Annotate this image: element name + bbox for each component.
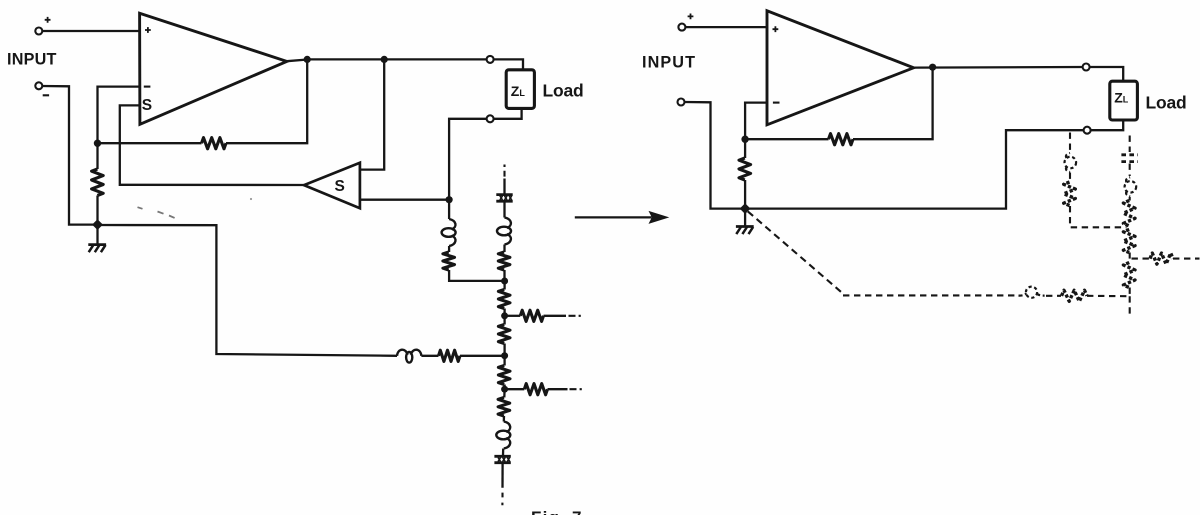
dashed inductor L7 (bottom horizontal) bbox=[1026, 287, 1037, 298]
capacitor C2 (bottom of ladder) bbox=[494, 455, 510, 458]
wire + input to op-amp U2 bbox=[685, 26, 767, 28]
resistor R10 (tap lower) bbox=[524, 384, 547, 395]
wire ladder seg 7 bbox=[503, 389, 506, 397]
wire load ZL bottom to terminal (right) bbox=[1091, 120, 1124, 130]
wire R4 to ladder node bbox=[503, 270, 505, 281]
wire ladder seg 2 bbox=[503, 309, 505, 316]
svg-text:Load: Load bbox=[543, 81, 584, 101]
wire U2 output to load terminal (right) bbox=[914, 66, 1083, 69]
wire node B to inductor L1 bbox=[448, 200, 450, 219]
junction output/feedback (right) bbox=[929, 64, 936, 71]
buffer S1 (left) bbox=[304, 163, 360, 209]
wire R7 to ladder node C bbox=[460, 355, 505, 357]
dashed wire tap branch bbox=[1132, 258, 1150, 260]
wire output branch to buffer S1 input bbox=[360, 59, 384, 169]
dashed wire L6 to R15 bbox=[1129, 197, 1131, 201]
load top terminal (right) bbox=[1083, 64, 1090, 71]
wire R13 to ground node (right) bbox=[744, 180, 746, 209]
resistor R9 (ladder) bbox=[498, 366, 510, 385]
dashed wire bottom horizontal bbox=[843, 294, 1017, 296]
wire U2 inverting input to node D bbox=[745, 103, 767, 140]
wire R11 to L4 bbox=[503, 416, 506, 422]
ground node junction (left) bbox=[92, 219, 103, 230]
wire ladder seg 3 bbox=[503, 316, 505, 325]
dashed wire ladder junction bbox=[1129, 253, 1131, 259]
resistor R1 (feedback, left) bbox=[202, 138, 227, 149]
wire node D to resistor R13 bbox=[744, 139, 746, 158]
dashed resistor R14 (branch 1) bbox=[1064, 182, 1076, 206]
dashed wire ladder seg bbox=[1129, 288, 1131, 297]
ladder junction 3 (node C) bbox=[501, 352, 508, 359]
input terminal - (left) bbox=[35, 82, 42, 89]
dashed wire tap out to edge bbox=[1173, 258, 1200, 260]
dashed resistor R15 (ladder) bbox=[1123, 201, 1135, 227]
wire R8 out bbox=[544, 315, 567, 317]
wire U1 inverting input to node A bbox=[98, 87, 140, 144]
resistor R5 (ladder) bbox=[498, 290, 510, 309]
svg-text:INPUT: INPUT bbox=[642, 54, 696, 72]
wire ladder seg 4 bbox=[503, 344, 505, 356]
dashed wire branch 1 from load return bbox=[1069, 133, 1071, 153]
wire load return to ground node (right) bbox=[745, 130, 1084, 208]
junction output/feedback (left) bbox=[304, 56, 311, 63]
load bottom terminal (left) bbox=[487, 115, 494, 122]
wire to tap resistor R8 bbox=[505, 315, 521, 317]
input terminal + (left) bbox=[35, 28, 42, 35]
dashed wire R14 to ladder junction bbox=[1070, 206, 1127, 227]
input terminal + (right) bbox=[678, 24, 685, 31]
dashed resistor R19 (tap) bbox=[1150, 253, 1173, 264]
resistor R4 (vertical) bbox=[498, 252, 510, 270]
load top terminal (left) bbox=[487, 56, 494, 63]
resistor R13 (to ground, right) bbox=[739, 158, 751, 180]
dash-dot continuation below ladder bbox=[501, 493, 503, 506]
inductor L1 (vertical, left) bbox=[449, 219, 455, 230]
node B junction bbox=[446, 196, 453, 203]
load impedance ZL (left) bbox=[506, 70, 534, 109]
node A junction bbox=[94, 140, 101, 147]
dashed wire to R16 bbox=[1046, 295, 1061, 297]
wire ladder seg 5 bbox=[503, 356, 505, 366]
wire buffer S1 lower pin to node B bbox=[360, 199, 449, 201]
dashed inductor L6 (ladder) bbox=[1125, 181, 1137, 193]
plus label inside U2 bbox=[773, 26, 779, 32]
resistor R7 (horizontal, left) bbox=[439, 350, 461, 361]
svg-text:Load: Load bbox=[1146, 93, 1187, 113]
stray scan speck bbox=[138, 207, 175, 218]
dashed resistor R18 (ladder) bbox=[1123, 263, 1135, 288]
wire node A to feedback resistor R1 bbox=[98, 142, 202, 144]
svg-text:Fig. 7: Fig. 7 bbox=[531, 508, 583, 515]
dashed wire ladder bottom bbox=[1129, 296, 1131, 317]
wire to ground symbol (right) bbox=[744, 209, 746, 227]
capacitor C1 (top of ladder) bbox=[496, 193, 512, 196]
wire L2 to R4 bbox=[503, 245, 505, 253]
wire to tap resistor R10 bbox=[505, 388, 525, 390]
resistor R3 (vertical, left) bbox=[443, 252, 455, 270]
wire - input down to ground node (left) bbox=[42, 86, 97, 225]
minus mark at - terminal (left) bbox=[43, 94, 49, 96]
dashed capacitor C3 (ladder top) bbox=[1121, 153, 1138, 156]
minus label inside U1 bbox=[144, 86, 151, 88]
dashed wire L5 to R14 bbox=[1069, 173, 1071, 182]
svg-text:S: S bbox=[142, 97, 152, 114]
resistor R2 (to ground, left) bbox=[92, 169, 104, 196]
ground (left) bbox=[88, 243, 106, 246]
stray scan dot bbox=[250, 198, 252, 200]
wire to capacitor C1 bbox=[503, 179, 505, 194]
resistor R11 (ladder) bbox=[498, 398, 510, 417]
dashed wire R16 to ladder bbox=[1087, 295, 1127, 298]
wire - input down to ground node (right) bbox=[685, 102, 745, 209]
wire L1 to R3 bbox=[448, 246, 450, 252]
wire node D to feedback resistor R12 bbox=[745, 138, 828, 140]
svg-text:S: S bbox=[335, 178, 345, 195]
junction output/buffer branch (left) bbox=[381, 56, 388, 63]
dashed resistor R17 (ladder) bbox=[1123, 230, 1135, 253]
dash-dot continuation above ladder bbox=[503, 165, 505, 177]
node D junction (right) bbox=[741, 136, 748, 143]
wire L4 to C2 bbox=[502, 449, 505, 456]
ladder junction 1 bbox=[501, 278, 508, 285]
ladder junction 2 bbox=[501, 312, 508, 319]
dashed inductor L5 (branch 1) bbox=[1065, 157, 1077, 169]
wire C2 down bbox=[501, 464, 503, 488]
wire load ZL bottom to terminal bbox=[494, 108, 522, 118]
wire U1 S pin to buffer S1 output bbox=[120, 105, 304, 185]
wire R2 to ground node bbox=[96, 196, 98, 225]
dashed wire ladder top bbox=[1129, 136, 1131, 153]
arrow between circuits bbox=[575, 216, 652, 218]
wire C1 to inductor L2 bbox=[503, 202, 505, 217]
inductor L3 (horizontal, left) bbox=[397, 350, 408, 356]
op-amp U1 (left) bbox=[140, 13, 287, 124]
wire to ground symbol (left) bbox=[96, 225, 98, 245]
dashed wire C3 to L6 bbox=[1129, 164, 1131, 177]
resistor R12 (feedback, right) bbox=[829, 134, 854, 145]
input terminal - (right) bbox=[678, 99, 685, 106]
wire node A to resistor R2 bbox=[96, 143, 98, 169]
plus label inside U1 bbox=[145, 27, 151, 33]
wire terminal to load ZL top bbox=[494, 59, 523, 69]
wire L3 to R7 bbox=[421, 355, 438, 357]
load bottom terminal (right) bbox=[1084, 127, 1091, 134]
inductor L2 (vertical) bbox=[505, 218, 511, 229]
plus mark at + terminal (left) bbox=[45, 17, 51, 23]
dash-dot continuation after R8 bbox=[569, 315, 581, 317]
wire terminal to load ZL top (right) bbox=[1090, 67, 1124, 81]
svg-text:INPUT: INPUT bbox=[7, 51, 57, 69]
op-amp U2 (right) bbox=[767, 11, 914, 125]
wire ladder seg 6 bbox=[503, 385, 505, 390]
dashed wire ground node diagonal bbox=[748, 211, 843, 293]
dash-dot continuation after R10 bbox=[570, 388, 582, 390]
ladder junction 4 bbox=[501, 386, 508, 393]
minus label inside U2 bbox=[773, 102, 780, 104]
wire R1 to output node (left) bbox=[226, 59, 307, 143]
ground node junction (right) bbox=[740, 203, 751, 214]
wire ladder seg 1 bbox=[503, 281, 505, 290]
wire R12 to output node (right) bbox=[853, 67, 933, 139]
wire node B up to load bottom terminal bbox=[449, 119, 486, 200]
ground (right) bbox=[736, 225, 754, 228]
dashed resistor R16 (bottom horizontal) bbox=[1062, 290, 1088, 301]
svg-text:ZL: ZL bbox=[1114, 90, 1129, 106]
wire R3 to ladder top node bbox=[449, 270, 505, 281]
wire + input to op-amp U1 bbox=[42, 30, 139, 32]
wire U1 output to load terminal bbox=[287, 59, 487, 61]
long wire ground node to crossover network bbox=[98, 225, 398, 356]
wire R10 out bbox=[548, 388, 568, 390]
load impedance ZL (right) bbox=[1110, 81, 1138, 120]
resistor R8 (tap upper) bbox=[520, 310, 543, 321]
resistor R6 (ladder) bbox=[498, 325, 510, 344]
inductor L4 (bottom of ladder) bbox=[504, 422, 510, 433]
plus mark at + terminal (right) bbox=[688, 14, 694, 20]
svg-text:ZL: ZL bbox=[511, 83, 526, 99]
